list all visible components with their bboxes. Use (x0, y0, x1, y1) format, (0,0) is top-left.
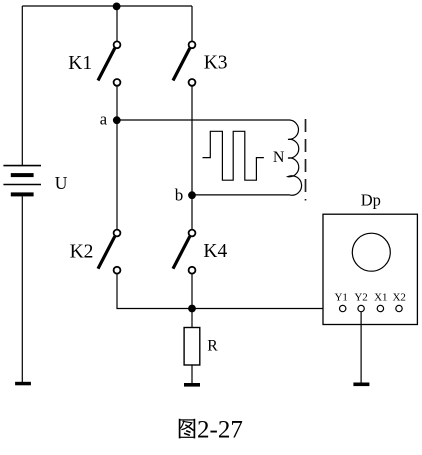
svg-text:b: b (175, 185, 184, 204)
switch K3 (173, 41, 195, 85)
terminal X2 (396, 305, 402, 311)
ground (Y2) (353, 383, 369, 387)
svg-text:Dp: Dp (361, 190, 381, 209)
svg-text:2-27: 2-27 (197, 417, 243, 444)
oscilloscope screen circle (352, 233, 390, 271)
switch K2 (98, 230, 120, 274)
wire node a to K2 (116, 120, 118, 229)
svg-text:Y2: Y2 (354, 292, 367, 304)
caption glyph 图 (180, 419, 195, 439)
svg-text:R: R (207, 338, 218, 355)
svg-text:X2: X2 (392, 292, 405, 304)
node a (113, 116, 121, 124)
wire Y2 to ground (360, 312, 362, 383)
wire junction to Y1 (192, 308, 340, 310)
wire K1 to node a (116, 86, 118, 120)
resistor R (184, 309, 200, 384)
svg-text:a: a (100, 109, 108, 128)
wire left branch lower (21, 196, 23, 382)
svg-text:K3: K3 (204, 53, 228, 74)
svg-text:K4: K4 (203, 241, 227, 262)
svg-text:K2: K2 (70, 241, 94, 262)
ground (resistor) (184, 383, 200, 387)
svg-text:N: N (273, 149, 285, 166)
svg-text:Y1: Y1 (334, 292, 347, 304)
wire K2 to bottom rail (117, 274, 192, 309)
inductor N coil (117, 120, 302, 195)
terminal Y1 (340, 305, 346, 311)
svg-text:U: U (55, 173, 68, 193)
wire left branch upper (21, 6, 23, 166)
switch K1 (98, 41, 120, 85)
svg-text:K1: K1 (68, 53, 92, 74)
wire middle branch top (116, 6, 118, 41)
oscilloscope Dp box (323, 214, 417, 324)
node bottom junction (188, 305, 196, 313)
switch K4 (173, 230, 195, 274)
node b (188, 191, 196, 199)
node junction top (113, 3, 121, 11)
waveform square pulse (203, 131, 264, 180)
battery U (3, 166, 41, 197)
wire right branch top (191, 6, 193, 41)
svg-text:X1: X1 (374, 292, 387, 304)
core dashed line (305, 119, 307, 201)
wire top horizontal (22, 5, 192, 7)
ground (battery) (15, 382, 31, 386)
terminal Y2 (358, 305, 364, 311)
terminal X1 (377, 305, 383, 311)
wire K3 to K4 through node b (191, 86, 193, 229)
wire K4 to bottom junction (191, 274, 193, 309)
